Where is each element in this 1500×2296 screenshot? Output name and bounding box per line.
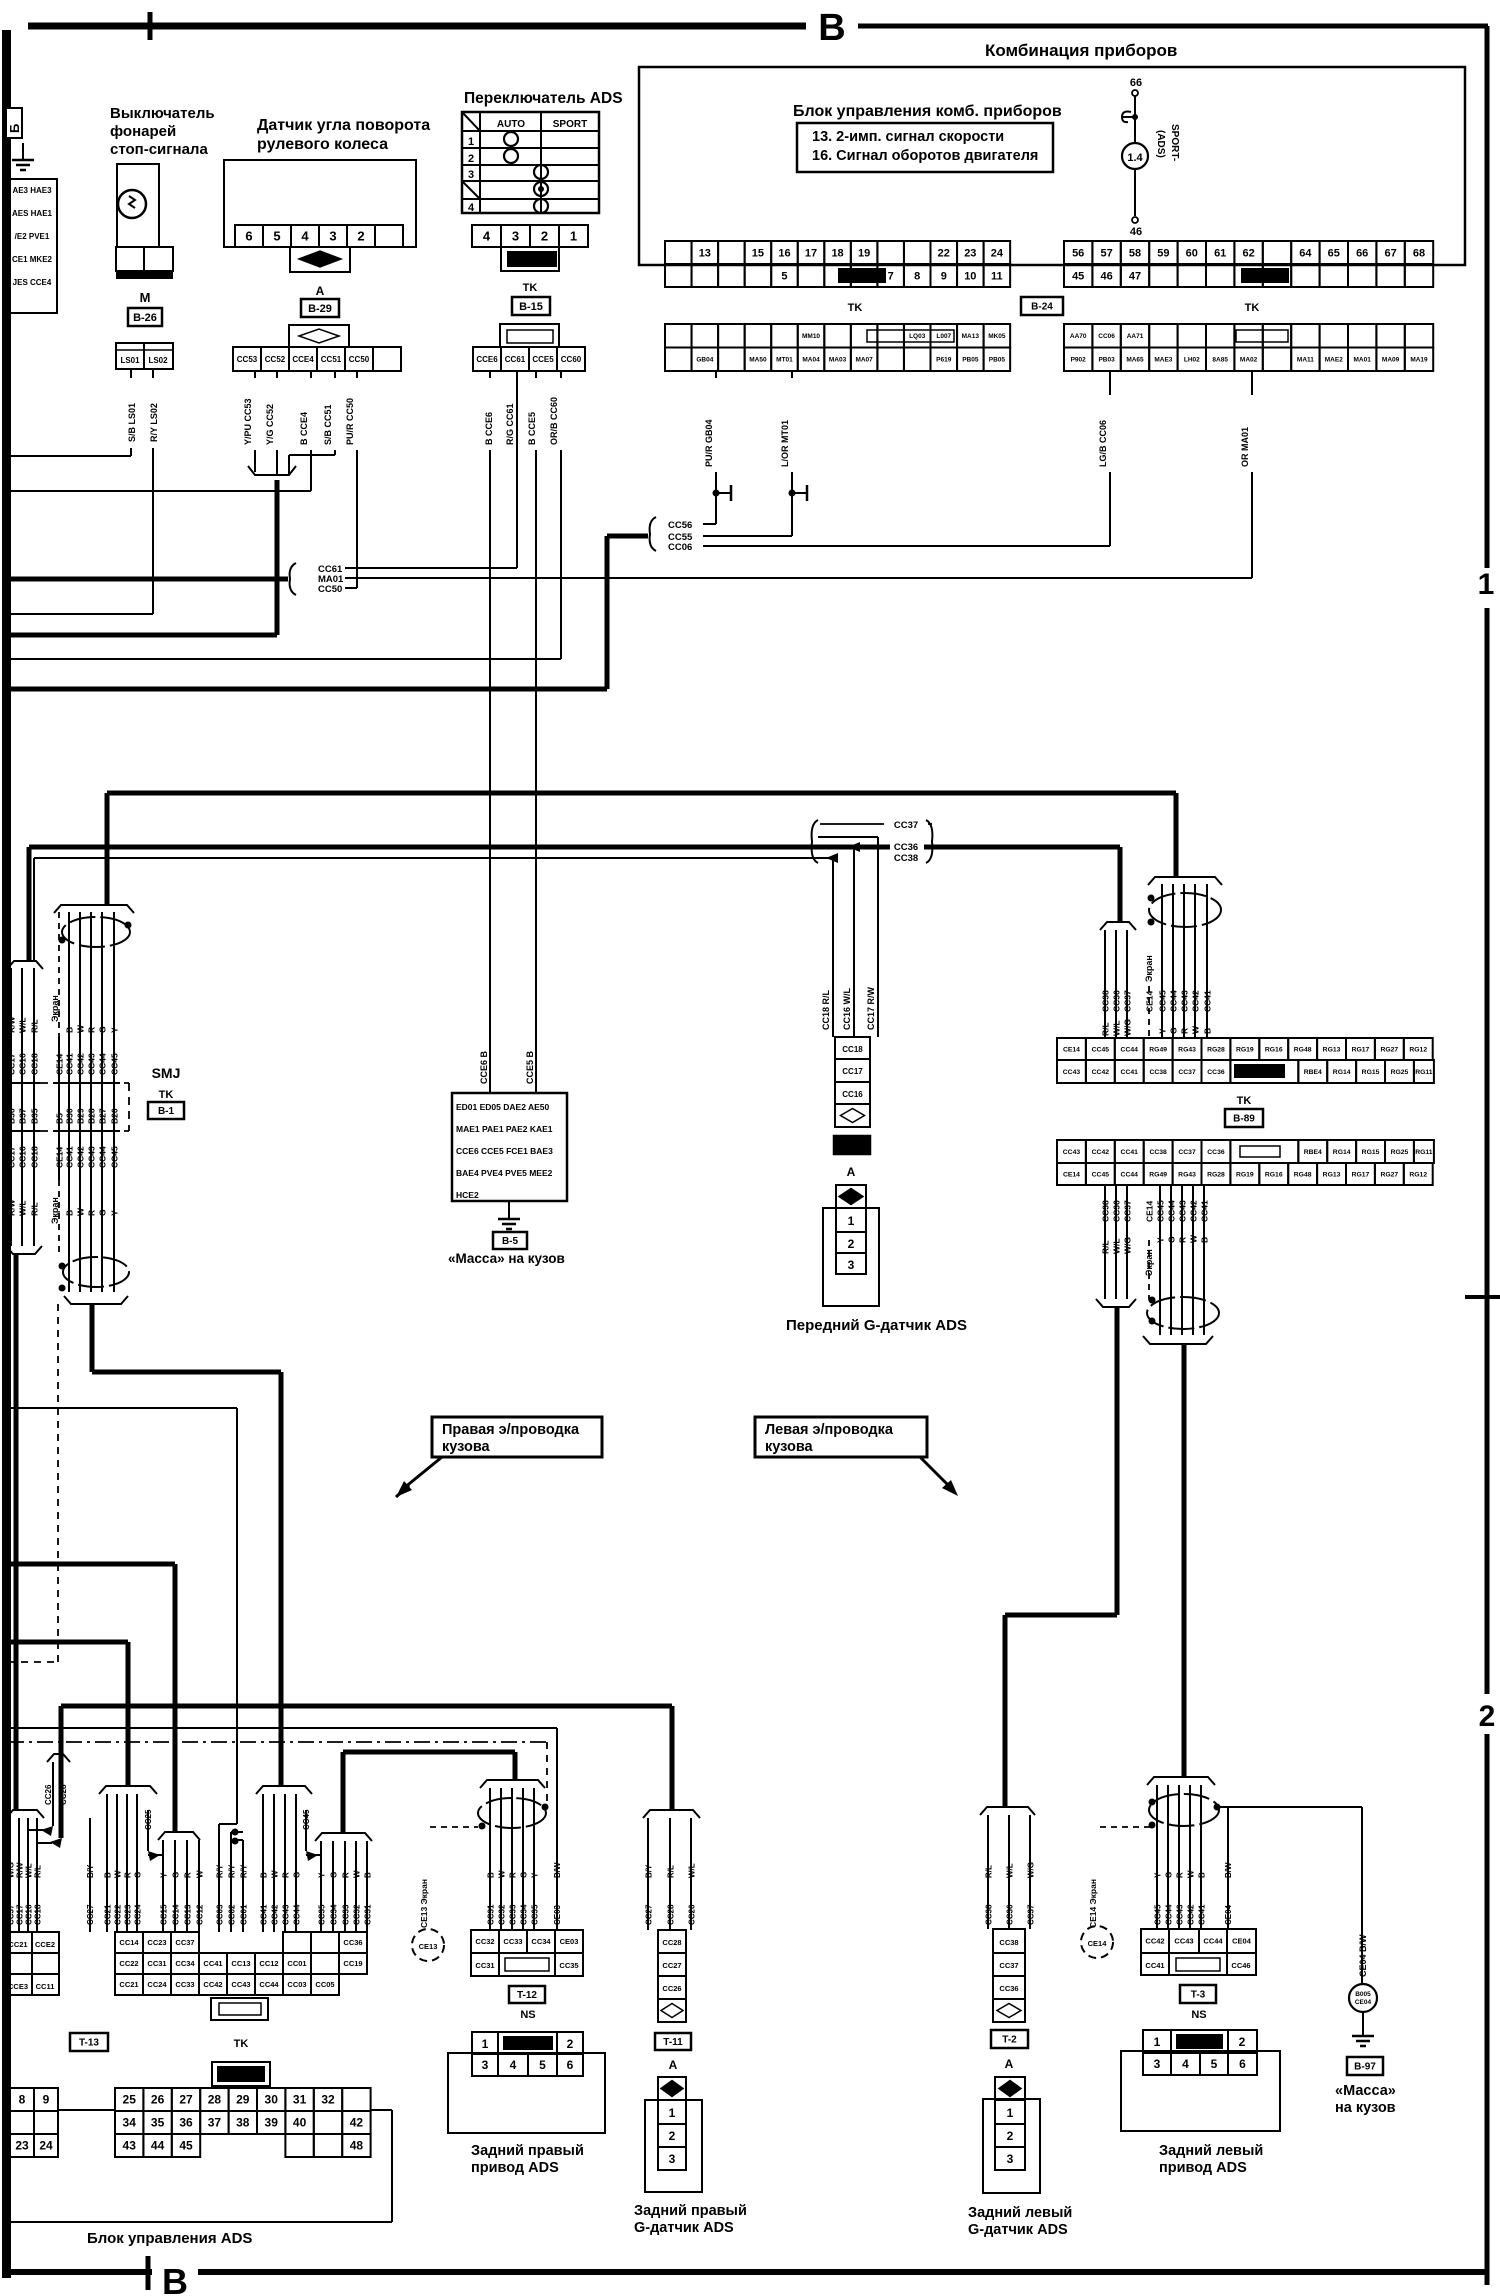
svg-text:CC43: CC43: [1176, 1904, 1185, 1925]
svg-text:CC27: CC27: [662, 1961, 681, 1970]
front G sensor keyway diamond: [836, 1185, 866, 1208]
rear left drive pin row 3 4 5 6: [1143, 2053, 1171, 2075]
connector ref box B-26: [128, 308, 162, 326]
svg-text:MA13: MA13: [962, 333, 980, 340]
svg-text:64: 64: [1299, 247, 1312, 259]
keyway diamond below steering sensor: [290, 247, 350, 272]
svg-text:CC13: CC13: [184, 1904, 193, 1925]
svg-text:CC16: CC16: [18, 1146, 28, 1168]
svg-text:3: 3: [468, 169, 474, 181]
svg-text:R: R: [124, 1872, 133, 1878]
svg-text:G: G: [98, 1026, 108, 1033]
harness code strip right row2: [1064, 348, 1092, 372]
joined thick wire CC52 bundle to left border: [275, 480, 280, 635]
connector ref box T-11: [655, 2033, 691, 2050]
svg-text:Выключатель: Выключатель: [110, 105, 215, 122]
svg-text:TK: TK: [523, 282, 538, 294]
svg-text:6: 6: [567, 2058, 574, 2072]
keyway rect box above CCE6 row: [500, 324, 559, 347]
wire LG/B CC06 drop to CC06 line: [1109, 371, 1111, 395]
dashed circle CE13: [412, 1929, 444, 1961]
svg-text:CC41: CC41: [1198, 1904, 1207, 1925]
left group1 bracket top: [7, 961, 43, 969]
svg-text:CC18: CC18: [842, 1045, 863, 1054]
svg-text:TK: TK: [234, 2038, 249, 2050]
svg-text:RG43: RG43: [1178, 1046, 1196, 1053]
svg-text:CC17: CC17: [16, 1904, 25, 1925]
svg-text:LS01: LS01: [120, 356, 140, 365]
svg-text:R/L: R/L: [1101, 1022, 1111, 1036]
svg-text:B-1: B-1: [158, 1106, 175, 1117]
inline connector joint on MT01 wire: [789, 490, 796, 497]
svg-text:57: 57: [1100, 247, 1112, 259]
group CC03-CC01 jog wires: [219, 1823, 237, 1825]
svg-text:PU/R GB04: PU/R GB04: [704, 419, 714, 467]
svg-text:CC17: CC17: [7, 1146, 17, 1168]
svg-text:CC37: CC37: [1027, 1904, 1036, 1925]
svg-text:CC37: CC37: [7, 1904, 16, 1925]
svg-text:CE14: CE14: [1063, 1171, 1080, 1178]
right 3-wire group below strip: [1104, 1185, 1106, 1299]
svg-text:G-датчик ADS: G-датчик ADS: [634, 2220, 734, 2236]
svg-text:CC34: CC34: [330, 1904, 339, 1925]
strip key rect left row1: [867, 330, 954, 342]
thick bus y1706 to rear-right G sensor: [61, 1704, 672, 1709]
svg-text:1: 1: [848, 1214, 855, 1228]
svg-text:G: G: [330, 1872, 339, 1878]
svg-text:W: W: [353, 1870, 362, 1878]
svg-text:G-датчик ADS: G-датчик ADS: [968, 2222, 1068, 2238]
border: letter B bottom: [152, 2266, 198, 2292]
svg-text:66: 66: [1356, 247, 1368, 259]
svg-text:45: 45: [179, 2139, 193, 2153]
left shield oval: [62, 917, 130, 947]
left shield junction dots: [59, 937, 66, 944]
wire MA01 line to OR MA01: [345, 577, 1252, 579]
svg-text:4: 4: [468, 202, 475, 214]
svg-text:MA04: MA04: [802, 357, 820, 364]
bundle CC41-44 wires: [262, 1794, 264, 1932]
svg-text:CE14: CE14: [1063, 1046, 1080, 1053]
right upper shield top bracket: [1148, 877, 1222, 885]
svg-text:LH02: LH02: [1184, 357, 1200, 364]
svg-text:61: 61: [1214, 247, 1226, 259]
svg-text:CCE5 B: CCE5 B: [525, 1050, 535, 1084]
border: right line lower: [1485, 1734, 1490, 2285]
svg-text:GB04: GB04: [696, 357, 713, 364]
svg-text:CC22: CC22: [114, 1904, 123, 1925]
svg-text:23: 23: [964, 247, 976, 259]
svg-text:RG13: RG13: [1323, 1046, 1341, 1053]
svg-text:CC42: CC42: [1092, 1069, 1110, 1076]
rear left shield drain CE04 wire: [1227, 1807, 1229, 1929]
svg-text:CC41: CC41: [1203, 990, 1213, 1012]
svg-text:CC45: CC45: [302, 1809, 311, 1830]
wire OR/B CC60 to left border: [560, 371, 562, 378]
svg-text:CC43: CC43: [1180, 990, 1190, 1012]
svg-text:B: B: [65, 1027, 75, 1033]
svg-text:CC45: CC45: [1092, 1046, 1110, 1053]
svg-text:RG14: RG14: [1333, 1149, 1351, 1156]
cluster connector strip right row2: [1064, 264, 1092, 287]
svg-text:3: 3: [1154, 2057, 1161, 2071]
rear left G bracket: [980, 1807, 1035, 1815]
svg-text:CC35: CC35: [531, 1904, 540, 1925]
svg-text:RG17: RG17: [1352, 1171, 1370, 1178]
cluster connector strip right row1 numbers 56-68: [1064, 241, 1092, 264]
right 5-wire shield group below strip: [1159, 1185, 1161, 1335]
svg-text:MA19: MA19: [1410, 357, 1428, 364]
svg-text:P902: P902: [1071, 357, 1087, 364]
svg-text:4: 4: [483, 229, 491, 244]
svg-text:CC27: CC27: [86, 1904, 95, 1925]
svg-text:R/Y: R/Y: [216, 1864, 225, 1878]
svg-text:CC60: CC60: [561, 355, 582, 364]
bundle CC15-12 wires: [162, 1840, 164, 1932]
svg-text:3: 3: [848, 1258, 855, 1272]
rear right G bracket: [643, 1810, 700, 1818]
svg-text:CC31: CC31: [475, 1961, 494, 1970]
rear left shield top bracket: [1147, 1777, 1215, 1785]
svg-text:RG16: RG16: [1265, 1171, 1283, 1178]
svg-text:B CCE4: B CCE4: [299, 412, 309, 445]
svg-text:CC42: CC42: [76, 1146, 86, 1168]
svg-text:HCE2: HCE2: [456, 1190, 479, 1200]
svg-text:AUTO: AUTO: [497, 119, 525, 130]
svg-text:60: 60: [1186, 247, 1198, 259]
brace CC61 MA01 CC50: [290, 563, 296, 595]
svg-text:CCE5: CCE5: [532, 355, 554, 364]
svg-text:13: 13: [699, 247, 711, 259]
svg-text:CC05: CC05: [315, 1980, 334, 1989]
svg-text:CE14: CE14: [1088, 1939, 1108, 1948]
svg-text:CC14: CC14: [172, 1904, 181, 1925]
svg-text:W/G: W/G: [7, 1862, 16, 1878]
svg-text:T-13: T-13: [79, 2038, 99, 2049]
wire CC61 line to R/G CC61: [345, 567, 517, 569]
ADS unit outline: [371, 2109, 392, 2111]
svg-text:B-97: B-97: [1354, 2062, 1376, 2073]
svg-text:B26: B26: [110, 1108, 120, 1124]
svg-text:CC38: CC38: [1101, 990, 1111, 1012]
rear right drive connector row2: [471, 1953, 499, 1976]
bundle CC15-12 bracket: [158, 1832, 200, 1840]
right shield oval mid: [1147, 1297, 1219, 1329]
svg-text:B CCE6: B CCE6: [484, 412, 494, 445]
svg-text:1: 1: [1154, 2035, 1161, 2049]
svg-text:W: W: [76, 1024, 86, 1033]
svg-text:29: 29: [236, 2093, 250, 2107]
connector ref box B-89: [1225, 1109, 1263, 1127]
svg-text:26: 26: [151, 2093, 165, 2107]
svg-text:CC44: CC44: [1203, 1937, 1223, 1946]
left 4-wire lower wires: [9, 1818, 11, 1932]
svg-text:CC36: CC36: [1207, 1149, 1225, 1156]
svg-text:B: B: [1203, 1028, 1213, 1034]
ADS unit small grid 8 9 / 23 24: [10, 2088, 34, 2111]
stop-lamp switch connector pad: [116, 247, 173, 271]
svg-text:JES CCE4: JES CCE4: [13, 278, 52, 287]
svg-text:28: 28: [208, 2093, 222, 2107]
connector row CC53 CC52 CCE4 CC51 CC50: [233, 347, 261, 371]
svg-text:Y: Y: [318, 1872, 327, 1878]
svg-text:PB05: PB05: [962, 357, 979, 364]
svg-text:B27: B27: [98, 1108, 108, 1124]
svg-text:CC41: CC41: [1200, 1200, 1210, 1222]
ADS switch key block: [501, 247, 559, 271]
thick jumper y1752 CC31-35 to rear-right shield: [343, 1750, 515, 1755]
steering angle sensor body: [224, 160, 416, 247]
svg-text:LQ03: LQ03: [909, 333, 926, 340]
left group2 bottom bracket: [64, 1296, 128, 1304]
connector ref box B-15: [512, 297, 550, 315]
svg-text:3: 3: [669, 2152, 676, 2166]
svg-text:CC50: CC50: [318, 584, 342, 595]
svg-text:CC42: CC42: [1092, 1149, 1110, 1156]
svg-text:кузова: кузова: [442, 1439, 491, 1455]
svg-text:34: 34: [123, 2116, 137, 2130]
svg-text:R: R: [1178, 1237, 1188, 1243]
svg-text:CC17 R/W: CC17 R/W: [866, 986, 876, 1030]
svg-text:W: W: [1187, 1870, 1196, 1878]
svg-text:CC34: CC34: [531, 1937, 551, 1946]
junction arrows into left bundle: [41, 1826, 53, 1836]
right upper shield wires: [1161, 884, 1163, 1038]
wire B CCE6 long drop to ground block: [489, 371, 491, 378]
svg-text:CC12: CC12: [196, 1904, 205, 1925]
svg-text:58: 58: [1129, 247, 1141, 259]
rear left drive connector row1: [1141, 1929, 1169, 1953]
connector row CCE6 CC61 CCE5 CC60: [473, 347, 501, 371]
svg-text:CC61: CC61: [505, 355, 526, 364]
svg-text:B30: B30: [65, 1108, 75, 1124]
svg-text:R: R: [342, 1872, 351, 1878]
svg-text:39: 39: [265, 2116, 279, 2130]
svg-text:ED01 ED05 DAE2 AE50: ED01 ED05 DAE2 AE50: [456, 1102, 550, 1112]
svg-text:CC01: CC01: [287, 1959, 306, 1968]
svg-text:CC38: CC38: [1149, 1069, 1167, 1076]
svg-text:фонарей: фонарей: [110, 123, 176, 140]
svg-text:R/L: R/L: [34, 1865, 43, 1878]
svg-text:59: 59: [1157, 247, 1169, 259]
svg-text:R/G CC61: R/G CC61: [505, 403, 515, 445]
svg-text:46: 46: [1130, 226, 1142, 238]
svg-text:CC18 R/L: CC18 R/L: [821, 989, 831, 1030]
right 3-wire bottom bracket: [1096, 1299, 1136, 1307]
wire label CC27 B/Y lower-left: [89, 1818, 91, 1932]
right connector strip upper row2 codes: [1057, 1060, 1086, 1083]
svg-text:Задний левый: Задний левый: [1159, 2143, 1263, 2159]
cluster connector strip left row2: [665, 264, 692, 287]
svg-text:27: 27: [179, 2093, 193, 2107]
svg-text:CC21: CC21: [119, 1980, 138, 1989]
strip key rect right row1: [1236, 330, 1288, 342]
svg-text:R/L: R/L: [667, 1865, 676, 1878]
svg-text:RG15: RG15: [1362, 1069, 1380, 1076]
thick bus vertical x175: [173, 1564, 178, 1832]
wire CC16 W/L drop: [853, 847, 855, 1037]
svg-text:24: 24: [991, 247, 1004, 259]
rear right drive body box: [448, 2053, 605, 2133]
thin bus y1728 CE03: [8, 1727, 557, 1729]
svg-text:CC22: CC22: [119, 1959, 138, 1968]
harness code strip left row2: [665, 348, 692, 372]
rear left drive connector row2: [1141, 1953, 1169, 1975]
svg-text:CC32: CC32: [498, 1904, 507, 1925]
svg-text:32: 32: [321, 2093, 335, 2107]
svg-text:11: 11: [991, 270, 1003, 282]
rear right G pins 1 2 3: [658, 2100, 686, 2124]
svg-text:CCE2: CCE2: [35, 1940, 55, 1949]
svg-text:CC41: CC41: [65, 1146, 75, 1168]
svg-text:B-29: B-29: [308, 303, 332, 315]
svg-text:Y/PU CC53: Y/PU CC53: [243, 398, 253, 445]
svg-text:CC36: CC36: [999, 1984, 1018, 1993]
svg-text:RBE4: RBE4: [1304, 1149, 1322, 1156]
svg-text:Y: Y: [1156, 1237, 1166, 1243]
svg-text:T-11: T-11: [663, 2037, 683, 2048]
svg-text:19: 19: [858, 247, 870, 259]
connector fragment box (HAE3/PVE1 rows) at left edge: [9, 179, 57, 313]
svg-text:CC44: CC44: [259, 1980, 279, 1989]
svg-text:1: 1: [669, 2106, 676, 2120]
ground at stop-lamp relay box: [22, 143, 24, 160]
wire CC06 line to LG/B CC06: [703, 545, 1110, 547]
svg-text:35: 35: [151, 2116, 165, 2130]
svg-text:CE03: CE03: [553, 1904, 562, 1925]
cluster strip left row2 key black: [838, 268, 886, 283]
svg-text:CC43: CC43: [282, 1904, 291, 1925]
svg-text:CC16: CC16: [25, 1904, 34, 1925]
svg-text:на кузов: на кузов: [1335, 2100, 1396, 2116]
svg-text:MAE2: MAE2: [1325, 357, 1343, 364]
thick bus y1642: [8, 1640, 128, 1645]
svg-text:48: 48: [350, 2139, 364, 2153]
instrument cluster outline box: [639, 67, 1465, 265]
wire Y/PU CC53 into bundle: [254, 371, 256, 378]
svg-text:CC38: CC38: [985, 1904, 994, 1925]
svg-text:W: W: [1189, 1234, 1199, 1243]
dashed drain CE14 down to lower area: [57, 1304, 59, 1662]
cluster strip right row2 key black: [1241, 268, 1289, 283]
ADS unit connector mid grid row2: [115, 1953, 143, 1974]
svg-text:B-26: B-26: [133, 312, 157, 324]
svg-text:L007: L007: [936, 333, 951, 340]
svg-text:CE14 Экран: CE14 Экран: [1088, 1879, 1098, 1928]
steering sensor pin row 6 5 4 3 2: [235, 225, 263, 247]
svg-text:CC18: CC18: [30, 1146, 40, 1168]
SMJ dashed boundary: [128, 1083, 130, 1131]
svg-text:B29: B29: [76, 1108, 86, 1124]
rear right drive pin row 1 2: [472, 2032, 498, 2054]
svg-text:5: 5: [273, 229, 280, 244]
svg-text:CC36: CC36: [1112, 1200, 1122, 1222]
svg-text:TK: TK: [1237, 1095, 1252, 1107]
svg-text:1: 1: [482, 2037, 489, 2051]
svg-text:R: R: [282, 1872, 291, 1878]
svg-text:1.4: 1.4: [1127, 152, 1143, 164]
brace CC26 CC28: [47, 1754, 70, 1762]
svg-text:Левая э/проводка: Левая э/проводка: [765, 1422, 894, 1438]
svg-text:CC31: CC31: [487, 1904, 496, 1925]
svg-text:R: R: [509, 1872, 518, 1878]
svg-text:MA07: MA07: [855, 357, 873, 364]
svg-text:2: 2: [1239, 2035, 1246, 2049]
svg-text:B: B: [818, 7, 845, 49]
svg-text:G: G: [172, 1872, 181, 1878]
svg-text:B28: B28: [87, 1108, 97, 1124]
svg-text:S/B LS01: S/B LS01: [127, 403, 137, 442]
svg-text:6: 6: [1239, 2057, 1246, 2071]
svg-text:CC42: CC42: [1187, 1904, 1196, 1925]
rear left drive pin row 1 2: [1143, 2030, 1171, 2053]
border: top line left of B: [28, 23, 806, 30]
svg-text:SMJ: SMJ: [152, 1065, 181, 1081]
svg-text:W/L: W/L: [18, 1017, 28, 1033]
right upper 3-wire wires: [1104, 930, 1106, 1038]
thick wire from group1 down left side: [14, 1254, 19, 1810]
svg-text:CC28: CC28: [662, 1938, 681, 1947]
harness code strip left row1: [665, 324, 692, 348]
svg-text:W/L: W/L: [1112, 1238, 1122, 1254]
right connector strip upper row1 codes: [1057, 1038, 1086, 1060]
svg-text:S/B CC51: S/B CC51: [323, 404, 333, 445]
svg-text:RG28: RG28: [1207, 1171, 1225, 1178]
left shield bundle wires upper: [68, 912, 70, 1037]
svg-text:Датчик угла поворота: Датчик угла поворота: [257, 117, 430, 134]
lamp symbol of stop-lamp switch: [118, 190, 146, 218]
svg-text:CC24: CC24: [147, 1980, 167, 1989]
svg-text:CC51: CC51: [321, 355, 342, 364]
thick bus y1564: [7, 1562, 175, 1567]
svg-text:68: 68: [1413, 247, 1425, 259]
front G sensor connector stack CC18/CC17/CC16: [835, 1037, 870, 1059]
svg-text:3: 3: [1007, 2152, 1014, 2166]
svg-text:B: B: [487, 1872, 496, 1878]
left shield bundle top bracket: [54, 905, 134, 913]
svg-text:Экран: Экран: [50, 995, 60, 1022]
rear right drive connector row1: [471, 1930, 499, 1953]
svg-text:RG49: RG49: [1149, 1046, 1167, 1053]
rear left drive body box: [1121, 2051, 1280, 2131]
svg-text:R/L: R/L: [1101, 1240, 1111, 1254]
ADS switch pin row 4 3 2 1: [472, 225, 501, 247]
svg-text:RG43: RG43: [1178, 1171, 1196, 1178]
svg-text:CCE6 CCE5 FCE1 BAE3: CCE6 CCE5 FCE1 BAE3: [456, 1146, 553, 1156]
svg-text:TK: TK: [848, 302, 863, 314]
dashed stub y1662: [8, 1661, 58, 1663]
ground symbol B-5: [498, 1219, 520, 1229]
svg-text:66: 66: [1130, 77, 1142, 89]
svg-text:«Масса»: «Масса»: [1335, 2083, 1396, 2099]
thick wire from left border to CC55 brace: [10, 687, 607, 692]
svg-text:CC37: CC37: [1178, 1149, 1196, 1156]
bundle CC21-24 bracket: [99, 1786, 157, 1794]
harness code strip right row1: [1064, 324, 1092, 348]
svg-text:24: 24: [39, 2139, 53, 2153]
label CC25 with junction: [147, 1810, 149, 1851]
ADS switch contacts SPORT column: [534, 165, 548, 179]
svg-text:Экран: Экран: [50, 1197, 60, 1224]
svg-text:G: G: [293, 1872, 302, 1878]
cluster lamp wire bottom: [1134, 169, 1136, 216]
svg-text:CC45: CC45: [1154, 1904, 1163, 1925]
svg-text:рулевого колеса: рулевого колеса: [257, 136, 388, 153]
svg-text:CC45: CC45: [1156, 1200, 1166, 1222]
svg-text:стоп-сигнала: стоп-сигнала: [110, 141, 208, 158]
svg-text:CC06: CC06: [1098, 333, 1115, 340]
svg-text:RG28: RG28: [1207, 1046, 1225, 1053]
